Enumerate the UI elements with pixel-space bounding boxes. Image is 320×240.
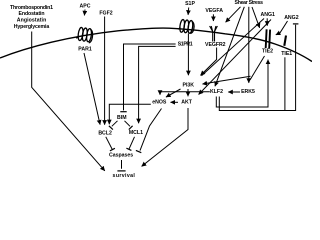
wire FGF2 to BCL2 <box>104 17 106 125</box>
svg-text:S1PR1: S1PR1 <box>178 42 193 48</box>
svg-text:VEGFA: VEGFA <box>205 8 223 14</box>
wire BIM to MCL1 (inhibit) <box>125 121 131 127</box>
svg-text:AKT: AKT <box>181 99 192 105</box>
wire PI3K to eNOS <box>166 89 181 97</box>
wire BIM to BCL2 (inhibit) <box>112 121 118 127</box>
wire KLF2 to eNOS <box>160 92 210 95</box>
wire shear stress to KLF2 <box>215 7 244 86</box>
wire ERK5 to KLF2 <box>228 91 240 93</box>
svg-text:MCL1: MCL1 <box>129 130 143 136</box>
receptor TIE2 <box>266 29 270 48</box>
wire thrombospondin group to survival <box>32 32 105 171</box>
receptor TIE1 <box>284 36 286 46</box>
cell membrane <box>0 28 312 61</box>
svg-text:KLF2: KLF2 <box>210 89 223 95</box>
wire S1PR1 branch to MCL1 <box>139 46 176 123</box>
svg-text:Thrombospondin1: Thrombospondin1 <box>10 5 53 11</box>
wire eNOS to Caspases (inhibit) <box>140 109 162 151</box>
svg-text:Shear Stress: Shear Stress <box>235 0 264 6</box>
wire shear stress to VEGFR2 <box>226 7 241 22</box>
receptor VEGFR2 <box>210 26 218 42</box>
wire S1P to S1PR1 <box>187 8 190 15</box>
wire ANG1 to AKT <box>199 20 271 95</box>
svg-text:VEGFR2: VEGFR2 <box>205 42 226 48</box>
wire TIE2 junction to PI3K <box>203 76 251 84</box>
svg-text:ERK5: ERK5 <box>241 89 255 95</box>
svg-text:ANG2: ANG2 <box>284 15 299 21</box>
wire S1PR1 branch to BIM (inhibit) <box>124 44 176 110</box>
svg-text:BCL2: BCL2 <box>98 131 112 137</box>
receptor S1PR1 coil <box>178 19 194 33</box>
wire KLF2 to ANG2 (inhibit) <box>219 25 295 111</box>
wire eNOS to BCL2 <box>109 104 151 124</box>
svg-text:Hyperglycemia: Hyperglycemia <box>14 24 50 30</box>
wire shear stress to TIE2 <box>252 7 260 28</box>
svg-text:survival: survival <box>113 173 136 179</box>
wire TIE1 down to ANG2 wire <box>284 57 286 110</box>
svg-text:FGF2: FGF2 <box>99 11 112 17</box>
wire Caspases to survival (inhibit) <box>121 160 123 169</box>
svg-text:S1P: S1P <box>185 1 195 7</box>
wire shear stress to ERK5 <box>248 7 250 83</box>
svg-text:PI3K: PI3K <box>183 82 195 88</box>
wire KLF2 to TIE2 <box>216 60 268 107</box>
receptor PAR1 coil <box>76 27 92 43</box>
wire ANG2 to TIE2 <box>276 21 288 35</box>
svg-text:PAR1: PAR1 <box>78 46 92 52</box>
wire AKT to survival <box>142 108 188 166</box>
wire VEGFR2 to PI3K <box>201 48 217 76</box>
wire VEGFA to VEGFR2 <box>212 14 214 21</box>
svg-text:APC: APC <box>80 3 91 9</box>
wire S1PR1 to PI3K <box>187 34 189 76</box>
svg-text:ANG1: ANG1 <box>260 12 275 18</box>
wire APC to PAR1 <box>83 10 86 16</box>
svg-text:BIM: BIM <box>117 115 127 121</box>
svg-text:Caspases: Caspases <box>109 153 133 159</box>
wire PAR1 to BCL2 <box>84 53 100 125</box>
wire AKT to eNOS <box>171 101 179 103</box>
wire TIE2 to ERK5 <box>250 56 264 80</box>
wire ANG1 to TIE2 <box>266 18 268 25</box>
wire MCL1 to Caspases (inhibit) <box>129 137 135 150</box>
svg-text:eNOS: eNOS <box>152 100 167 106</box>
svg-text:TIE1: TIE1 <box>281 51 292 57</box>
wire PI3K to AKT <box>187 89 189 96</box>
svg-text:TIE2: TIE2 <box>262 49 273 55</box>
wire BCL2 to Caspases (inhibit) <box>106 137 113 150</box>
svg-text:Angiostatin: Angiostatin <box>17 17 47 23</box>
svg-text:Endostatin: Endostatin <box>19 11 45 17</box>
wire ANG1 to PI3K <box>202 19 265 76</box>
